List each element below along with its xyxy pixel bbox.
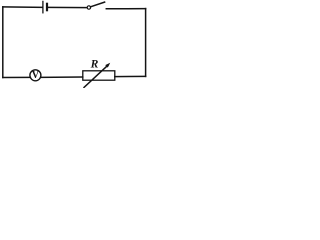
wire rheostat to voltmeter [41,76,83,78]
wire top-left horizontal [3,6,43,9]
wire bottom-right horizontal [115,75,146,77]
wire left vertical [2,7,4,78]
battery cell long plate [42,1,44,12]
wire battery to switch [48,6,87,8]
battery cell short thick plate [46,4,48,10]
wire right vertical [145,9,147,77]
wire voltmeter to bottom-left corner [3,76,30,78]
wire top-right horizontal [106,8,145,10]
rheostat slider arrow shaft [84,65,108,88]
switch pivot circle S [87,6,90,9]
switch lever arm [91,2,105,7]
rheostat R body [83,71,115,80]
voltmeter body V1 [30,70,41,81]
svg-text:R: R [90,58,99,71]
rheostat slider arrowhead [105,63,110,68]
svg-text:V: V [32,70,40,81]
